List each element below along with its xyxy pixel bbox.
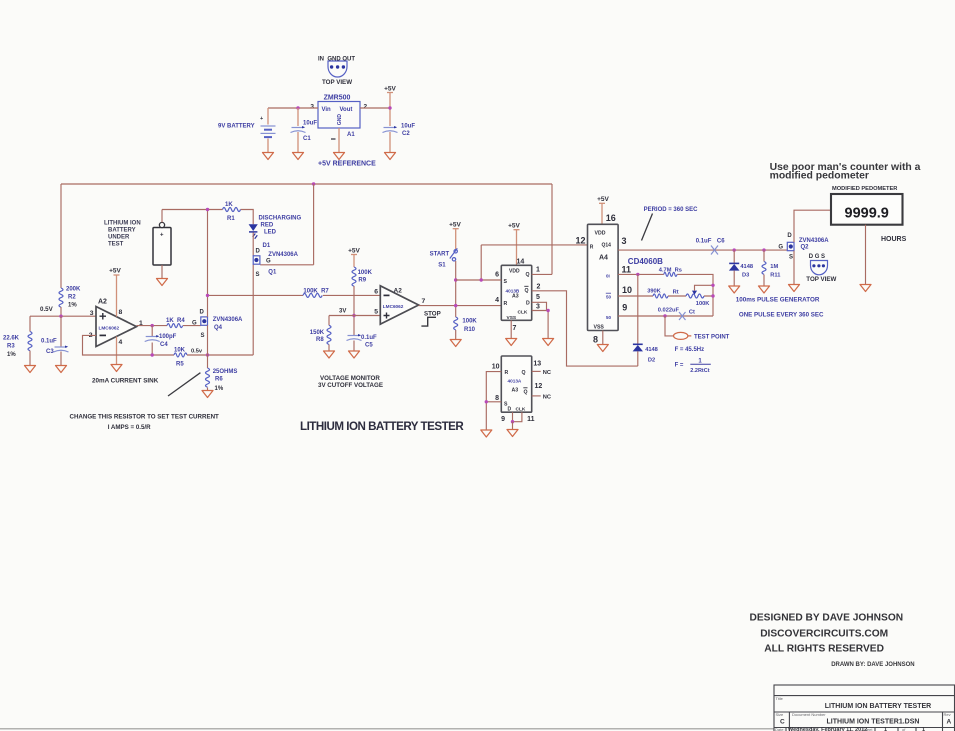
wire left rail down to R2 bbox=[60, 184, 62, 288]
wire Q4 drain column from battery node bbox=[207, 210, 209, 317]
wire 4013A pin13 NC bbox=[532, 370, 541, 372]
svg-text:1: 1 bbox=[922, 727, 925, 731]
svg-text:4148: 4148 bbox=[645, 347, 658, 353]
pot wiper arrow bbox=[692, 285, 713, 294]
svg-text:11: 11 bbox=[622, 265, 632, 275]
junction at C1 node bbox=[296, 106, 299, 109]
svg-text:BATTERY: BATTERY bbox=[108, 228, 136, 234]
svg-text:Q: Q bbox=[524, 390, 528, 396]
wire C3 column bbox=[60, 316, 62, 365]
wire output node to C4 bbox=[137, 325, 201, 327]
resistor R7 bbox=[303, 293, 322, 297]
svg-text:DISCOVERCIRCUITS.COM: DISCOVERCIRCUITS.COM bbox=[760, 629, 888, 640]
LED D1 bbox=[249, 224, 258, 238]
wire 4013B VSS bbox=[510, 320, 512, 338]
wire op-amp1 pin8 bbox=[116, 275, 118, 317]
resistor Rt 390K bbox=[653, 294, 668, 298]
wire 4013A pin8 bbox=[486, 401, 501, 403]
connector J1 top-view package bbox=[328, 61, 347, 77]
resistor Rs 4.7M bbox=[664, 272, 677, 276]
svg-text:R10: R10 bbox=[464, 327, 476, 333]
labels Q4 D G S ZVN4306A bbox=[192, 310, 243, 340]
junction D-CLK tie bbox=[511, 420, 514, 423]
svg-text:22.6K: 22.6K bbox=[3, 336, 20, 342]
svg-text:100K R7: 100K R7 bbox=[303, 289, 329, 295]
svg-text:1K: 1K bbox=[225, 202, 233, 208]
junction pin5/pin3 bbox=[546, 309, 549, 312]
svg-text:LITHIUM ION TESTER1.DSN: LITHIUM ION TESTER1.DSN bbox=[827, 719, 920, 726]
svg-text:3: 3 bbox=[536, 304, 540, 311]
svg-text:TEST POINT: TEST POINT bbox=[694, 335, 730, 341]
svg-text:100ms PULSE GENERATOR: 100ms PULSE GENERATOR bbox=[736, 297, 820, 304]
svg-text:100K: 100K bbox=[462, 319, 477, 325]
pin labels op-amp1 bbox=[89, 309, 143, 346]
svg-text:TOP VIEW: TOP VIEW bbox=[806, 276, 836, 283]
bottom page edge line bbox=[0, 728, 774, 730]
svg-text:A1: A1 bbox=[347, 132, 355, 138]
svg-text:8: 8 bbox=[593, 335, 598, 345]
svg-text:STOP: STOP bbox=[424, 311, 441, 318]
resistor R5 bbox=[174, 353, 253, 357]
pedometer display box bbox=[831, 194, 903, 225]
svg-text:VDD: VDD bbox=[509, 269, 520, 275]
wire tie to ground bbox=[512, 422, 514, 430]
svg-text:9: 9 bbox=[622, 303, 627, 313]
svg-text:HOURS: HOURS bbox=[881, 236, 907, 243]
svg-text:PERIOD = 360 SEC: PERIOD = 360 SEC bbox=[644, 207, 699, 213]
svg-text:0.1uF: 0.1uF bbox=[41, 339, 57, 345]
svg-text:D: D bbox=[526, 301, 530, 307]
svg-text:10: 10 bbox=[492, 364, 500, 371]
svg-text:modified pedometer: modified pedometer bbox=[770, 171, 869, 182]
op-amp U A2 second half bbox=[380, 286, 418, 324]
wire R3 top bbox=[29, 316, 31, 331]
svg-text:1%: 1% bbox=[215, 386, 224, 392]
label 0.022uF Ct bbox=[658, 308, 695, 316]
svg-text:S: S bbox=[201, 333, 205, 339]
ground (4013A left) bbox=[481, 430, 492, 437]
power flag +5V (START) bbox=[449, 222, 461, 229]
label 10uF C2 bbox=[401, 124, 415, 138]
resistor R3 bbox=[28, 332, 32, 366]
svg-text:20mA CURRENT SINK: 20mA CURRENT SINK bbox=[92, 378, 159, 385]
wire START column top bbox=[455, 229, 457, 250]
svg-text:0.1uF: 0.1uF bbox=[696, 239, 712, 245]
4013A inside labels bbox=[504, 370, 528, 413]
svg-text:Size: Size bbox=[776, 712, 785, 717]
wire Vout to +5V node bbox=[360, 107, 390, 109]
label 100pF C4 bbox=[159, 334, 177, 348]
wire R8 top corner bbox=[328, 316, 330, 326]
label 1M R11 bbox=[770, 264, 780, 279]
junction battery+ node bbox=[206, 208, 209, 211]
svg-text:ZVN4306A: ZVN4306A bbox=[213, 317, 243, 323]
svg-text:DISCHARGING: DISCHARGING bbox=[259, 216, 302, 222]
svg-text:10: 10 bbox=[622, 285, 632, 295]
junction pot right bbox=[711, 294, 714, 297]
svg-text:+: + bbox=[160, 233, 164, 239]
label DISCHARGING RED LED bbox=[259, 216, 302, 236]
junction pin8 bbox=[485, 400, 488, 403]
wire 4013A pin10 bbox=[486, 372, 501, 430]
svg-text:R5: R5 bbox=[176, 362, 184, 368]
svg-text:A2: A2 bbox=[394, 288, 403, 295]
wire 4013B pin3 CLK bbox=[532, 311, 548, 339]
svg-text:D1: D1 bbox=[263, 243, 271, 249]
label 4148 D2 bbox=[645, 347, 658, 364]
svg-text:200K: 200K bbox=[66, 287, 81, 293]
svg-text:12: 12 bbox=[535, 383, 543, 390]
junction 3V node bbox=[352, 314, 355, 317]
svg-text:R3: R3 bbox=[7, 344, 15, 350]
wire Q4 source stub bbox=[207, 325, 209, 355]
wire CD4060 pin3 output to Q2 gate bbox=[618, 249, 787, 251]
svg-text:13: 13 bbox=[533, 361, 541, 368]
junction sense node bbox=[206, 294, 209, 297]
svg-text:LED: LED bbox=[264, 230, 277, 236]
junction at C2 node bbox=[388, 106, 391, 109]
svg-text:RED: RED bbox=[261, 223, 274, 229]
svg-text:ONE PULSE EVERY 360 SEC: ONE PULSE EVERY 360 SEC bbox=[739, 312, 824, 319]
ground (CD4060) bbox=[597, 345, 608, 352]
wire CD4060 pin11 to Rs bbox=[618, 274, 713, 316]
capacitor C1 bbox=[291, 126, 306, 133]
svg-text:12: 12 bbox=[575, 236, 585, 246]
wire op-amp1 pin4 bbox=[116, 337, 118, 365]
labels 390K Rt 100K bbox=[647, 289, 710, 308]
wire battery top bbox=[161, 210, 163, 223]
svg-text:C5: C5 bbox=[365, 343, 373, 349]
svg-text:Wednesday, February 11, 2012: Wednesday, February 11, 2012 bbox=[788, 727, 867, 731]
svg-text:A2: A2 bbox=[98, 299, 107, 306]
svg-text:C2: C2 bbox=[402, 131, 410, 137]
capacitor C3 bbox=[54, 346, 69, 353]
label VOLTAGE MONITOR bbox=[318, 375, 383, 389]
svg-text:3: 3 bbox=[90, 310, 94, 317]
ground (C2) bbox=[385, 153, 396, 160]
junction pin3/R11 bbox=[762, 248, 765, 251]
ground (battery under test) bbox=[157, 279, 168, 286]
svg-text:+5V: +5V bbox=[384, 86, 396, 93]
svg-text:IN GND OUT: IN GND OUT bbox=[318, 57, 355, 63]
svg-text:F = 45.5Hz: F = 45.5Hz bbox=[675, 347, 705, 353]
svg-text:+5V: +5V bbox=[449, 222, 461, 229]
svg-text:+5V REFERENCE: +5V REFERENCE bbox=[318, 161, 376, 168]
ground (R3) bbox=[25, 366, 36, 373]
svg-text:S: S bbox=[504, 279, 508, 285]
svg-text:ALL RIGHTS RESERVED: ALL RIGHTS RESERVED bbox=[764, 644, 884, 655]
wire battery to Vin bbox=[268, 107, 318, 109]
counter U A4 CD4060B body bbox=[588, 224, 619, 330]
svg-text:0.5V: 0.5V bbox=[40, 306, 54, 313]
capacitor C2 bbox=[383, 126, 398, 133]
svg-text:NC: NC bbox=[543, 370, 551, 376]
svg-text:C6: C6 bbox=[717, 239, 725, 245]
ground (R10) bbox=[450, 340, 461, 347]
svg-text:50: 50 bbox=[606, 315, 612, 320]
wire battery bottom bbox=[161, 265, 163, 279]
power flag +5V (4013B) bbox=[508, 223, 520, 230]
svg-text:100pF: 100pF bbox=[159, 334, 177, 340]
svg-text:Date:: Date: bbox=[775, 727, 785, 731]
junction drop/pin6 bbox=[480, 278, 483, 281]
formula F = 1/2.2RtCt bbox=[675, 359, 711, 374]
svg-text:8: 8 bbox=[495, 395, 499, 402]
svg-text:Vout: Vout bbox=[340, 107, 353, 113]
svg-text:A3: A3 bbox=[512, 388, 519, 394]
svg-text:Rev: Rev bbox=[944, 712, 951, 717]
flip-flop U A3 4013B body bbox=[501, 265, 531, 320]
switch S1 START bbox=[450, 248, 458, 261]
capacitor C6 bbox=[711, 246, 718, 255]
CD4060 inside labels bbox=[590, 231, 612, 331]
stop step symbol bbox=[421, 317, 436, 326]
svg-text:8: 8 bbox=[119, 309, 123, 316]
svg-text:100K: 100K bbox=[358, 270, 373, 276]
svg-text:Q4: Q4 bbox=[214, 325, 223, 331]
svg-text:3: 3 bbox=[622, 236, 627, 246]
label 1K R1 bbox=[225, 202, 235, 222]
junction output/C4 bbox=[151, 324, 154, 327]
wire 0.5V node horizontal bbox=[30, 315, 96, 317]
svg-text:ZVN4306A: ZVN4306A bbox=[799, 238, 829, 244]
power flag +5V (CD4060) bbox=[597, 196, 609, 203]
svg-text:CLK: CLK bbox=[516, 407, 526, 413]
4013A pin number labels bbox=[492, 361, 543, 424]
svg-text:4.7M Rs: 4.7M Rs bbox=[659, 268, 682, 274]
svg-text:CHANGE THIS RESISTOR TO SET TE: CHANGE THIS RESISTOR TO SET TEST CURRENT bbox=[70, 414, 220, 421]
svg-text:+5V: +5V bbox=[508, 223, 520, 230]
svg-text:Q: Q bbox=[525, 288, 529, 294]
svg-text:+5V: +5V bbox=[597, 196, 609, 203]
svg-text:+5V: +5V bbox=[348, 248, 360, 255]
label 10uF C1 bbox=[303, 121, 317, 143]
svg-text:4148: 4148 bbox=[740, 264, 753, 270]
svg-text:Title: Title bbox=[776, 696, 784, 701]
wire R9 top bbox=[353, 255, 355, 268]
svg-text:Q: Q bbox=[522, 370, 526, 376]
svg-text:9V BATTERY: 9V BATTERY bbox=[218, 124, 255, 130]
wire CD4060 pin9 to Ct bbox=[618, 315, 713, 317]
junction top rail / Q1 gate branch bbox=[312, 182, 315, 185]
svg-text:LMC6062: LMC6062 bbox=[99, 326, 120, 331]
svg-text:UNDER: UNDER bbox=[108, 235, 130, 241]
svg-text:+: + bbox=[260, 116, 263, 122]
svg-text:1M: 1M bbox=[770, 264, 778, 270]
pin labels op-amp2 bbox=[374, 289, 425, 316]
pointer line PERIOD bbox=[642, 214, 653, 241]
svg-text:S1: S1 bbox=[438, 263, 446, 269]
svg-text:R: R bbox=[505, 370, 509, 376]
wire 4013B pin5 D bbox=[532, 302, 547, 310]
battery B1 9V symbol bbox=[260, 116, 276, 137]
svg-text:9: 9 bbox=[501, 416, 505, 423]
svg-text:1%: 1% bbox=[68, 303, 77, 309]
svg-text:1K R4: 1K R4 bbox=[166, 318, 185, 324]
svg-text:Q: Q bbox=[526, 272, 530, 278]
svg-text:VSS: VSS bbox=[594, 325, 605, 331]
svg-text:1%: 1% bbox=[7, 352, 16, 358]
regulator A1 body bbox=[318, 102, 360, 129]
svg-text:Document Number: Document Number bbox=[792, 712, 826, 717]
wire 4013B pin1 Q bbox=[532, 273, 552, 275]
flip-flop U A3 4013A body bbox=[501, 356, 531, 412]
svg-text:7: 7 bbox=[422, 298, 426, 305]
svg-text:Ct: Ct bbox=[689, 310, 695, 316]
svg-text:150K: 150K bbox=[310, 330, 325, 336]
svg-text:14: 14 bbox=[517, 259, 525, 266]
svg-text:R8: R8 bbox=[316, 337, 324, 343]
wire battery sense to R7 bbox=[208, 294, 381, 296]
svg-text:25OHMS: 25OHMS bbox=[213, 369, 238, 375]
svg-text:C: C bbox=[780, 719, 785, 726]
svg-text:11: 11 bbox=[527, 416, 535, 423]
resistor R4 bbox=[167, 324, 183, 328]
ground (D3) bbox=[729, 286, 740, 293]
label 25OHMS R6 1% bbox=[213, 369, 238, 392]
transistor Q2 ZVN4306A bbox=[787, 242, 794, 250]
svg-text:+5V: +5V bbox=[109, 268, 121, 275]
svg-text:3V CUTOFF VOLTAGE: 3V CUTOFF VOLTAGE bbox=[318, 382, 383, 389]
capacitor C5 bbox=[347, 334, 362, 341]
ground (C1) bbox=[293, 153, 304, 160]
label 150K R8 bbox=[310, 330, 325, 343]
label 22.6K R3 1% bbox=[3, 336, 20, 359]
label 0.1uF C3 bbox=[41, 339, 57, 356]
note use poor man's counter bbox=[770, 162, 921, 182]
svg-text:2: 2 bbox=[537, 284, 541, 291]
connector J2 top-view package bbox=[811, 261, 828, 275]
svg-text:CLK: CLK bbox=[518, 310, 528, 316]
svg-text:4: 4 bbox=[495, 297, 499, 304]
label 200K R2 1% bbox=[66, 287, 81, 309]
svg-text:16: 16 bbox=[606, 213, 616, 223]
wire main top rail bbox=[61, 183, 552, 185]
resistor R11 bbox=[762, 250, 766, 286]
svg-text:10K: 10K bbox=[174, 348, 186, 354]
capacitor C4 bbox=[145, 326, 160, 355]
label 0.1uF C6 bbox=[696, 239, 726, 245]
wire op-amp1 pin2 feedback bbox=[83, 335, 175, 355]
svg-text:C1: C1 bbox=[303, 136, 311, 142]
power flag +5V (op-amp1) bbox=[109, 268, 121, 276]
wire battery 9V column bbox=[267, 108, 269, 152]
svg-text:G: G bbox=[266, 259, 271, 265]
wire pin12-rail drop to pin6 bbox=[480, 245, 482, 280]
CD4060 pin number labels bbox=[575, 213, 632, 345]
svg-text:D3: D3 bbox=[742, 273, 749, 279]
svg-text:Sheet: Sheet bbox=[862, 727, 873, 731]
svg-text:LMC6062: LMC6062 bbox=[383, 304, 404, 309]
labels Q2 D G S ZVN4306A bbox=[778, 233, 829, 261]
wire CD4060 VSS bbox=[602, 331, 604, 345]
svg-text:D: D bbox=[787, 233, 792, 239]
junction 0.5v sense node bbox=[206, 353, 209, 356]
power flag +5V (R9) bbox=[348, 248, 360, 255]
junction C4 bottom bbox=[151, 353, 154, 356]
svg-text:R1: R1 bbox=[227, 216, 235, 222]
label 100K R10 bbox=[462, 319, 477, 334]
wire right rail down to 4013 Q bbox=[551, 184, 553, 274]
resistor R6 bbox=[206, 355, 210, 391]
svg-text:0.5v: 0.5v bbox=[191, 349, 203, 355]
svg-text:LITHIUM ION BATTERY TESTER: LITHIUM ION BATTERY TESTER bbox=[300, 420, 464, 433]
transistor Q4 ZVN4306A bbox=[201, 317, 208, 325]
junction pin9/testpoint bbox=[663, 314, 666, 317]
svg-text:GND: GND bbox=[337, 114, 343, 126]
svg-text:S: S bbox=[789, 255, 793, 261]
label 100K R9 bbox=[358, 270, 373, 284]
ground (pedometer) bbox=[860, 285, 871, 292]
ground (C5) bbox=[349, 351, 360, 358]
svg-text:D: D bbox=[256, 249, 261, 255]
ground (R8) bbox=[324, 351, 335, 358]
svg-text:A: A bbox=[947, 719, 952, 726]
svg-text:START: START bbox=[430, 252, 450, 258]
wire pedometer to ground bbox=[865, 225, 867, 285]
svg-text:G: G bbox=[778, 245, 783, 251]
svg-text:3: 3 bbox=[310, 104, 314, 111]
wire op-amp2 output bbox=[419, 305, 502, 307]
wire Q1 gate branch vertical bbox=[313, 184, 315, 265]
svg-text:A3: A3 bbox=[512, 294, 519, 300]
svg-text:0.1uF: 0.1uF bbox=[361, 335, 377, 341]
diode D2 4148 bbox=[633, 274, 643, 366]
wire Q2 source bbox=[793, 251, 795, 285]
pin 1 tick of regulator gnd bbox=[331, 138, 336, 140]
ground (4013B vss) bbox=[506, 339, 517, 346]
wire 4013B pin12-rail to CD4060 R bbox=[481, 244, 587, 246]
svg-text:1: 1 bbox=[884, 727, 887, 731]
svg-text:9999.9: 9999.9 bbox=[845, 206, 889, 222]
wire R9 node to C5 and ground bbox=[353, 316, 355, 352]
svg-text:S: S bbox=[256, 272, 260, 278]
svg-text:MODIFIED PEDOMETER: MODIFIED PEDOMETER bbox=[832, 186, 897, 192]
wire 4013A pin12 NC bbox=[532, 395, 541, 397]
wire test point bbox=[665, 316, 674, 336]
svg-text:Vin: Vin bbox=[322, 107, 332, 113]
resistor R10 bbox=[454, 317, 458, 330]
svg-text:2: 2 bbox=[364, 104, 368, 111]
ground (regulator) bbox=[334, 153, 345, 160]
ground (battery) bbox=[263, 153, 274, 160]
svg-text:0.022uF: 0.022uF bbox=[658, 308, 680, 314]
junction START/output bbox=[454, 304, 457, 307]
svg-text:LITHIUM ION BATTERY TESTER: LITHIUM ION BATTERY TESTER bbox=[825, 703, 931, 710]
svg-text:R9: R9 bbox=[358, 278, 366, 284]
wire 4013B pin6 bbox=[456, 279, 502, 281]
wire CD4060 pin16 bbox=[601, 203, 603, 224]
svg-text:R: R bbox=[590, 245, 594, 251]
svg-text:R6: R6 bbox=[215, 377, 223, 383]
test point TP1 bbox=[674, 332, 692, 339]
label START S1 bbox=[430, 252, 450, 269]
wire regulator gnd pin bbox=[338, 128, 340, 152]
svg-text:DRAWN BY: DAVE JOHNSON: DRAWN BY: DAVE JOHNSON bbox=[831, 662, 914, 668]
resistor R9 bbox=[352, 267, 356, 316]
svg-text:VOLTAGE MONITOR: VOLTAGE MONITOR bbox=[320, 375, 380, 382]
wire +5V down through C2 bbox=[389, 93, 391, 153]
svg-text:ZMR500: ZMR500 bbox=[324, 95, 351, 102]
pointer line to R6 bbox=[168, 373, 200, 396]
junction pin11/D2 bbox=[636, 273, 639, 276]
wire CD4060 pin10 through Rt and pot bbox=[618, 295, 713, 297]
wire Q2 drain to pedometer bbox=[794, 210, 831, 242]
svg-text:2.2RtCt: 2.2RtCt bbox=[690, 368, 709, 374]
ground (4013A tie) bbox=[507, 430, 518, 437]
svg-text:1: 1 bbox=[536, 267, 540, 274]
svg-text:F =: F = bbox=[675, 363, 684, 369]
